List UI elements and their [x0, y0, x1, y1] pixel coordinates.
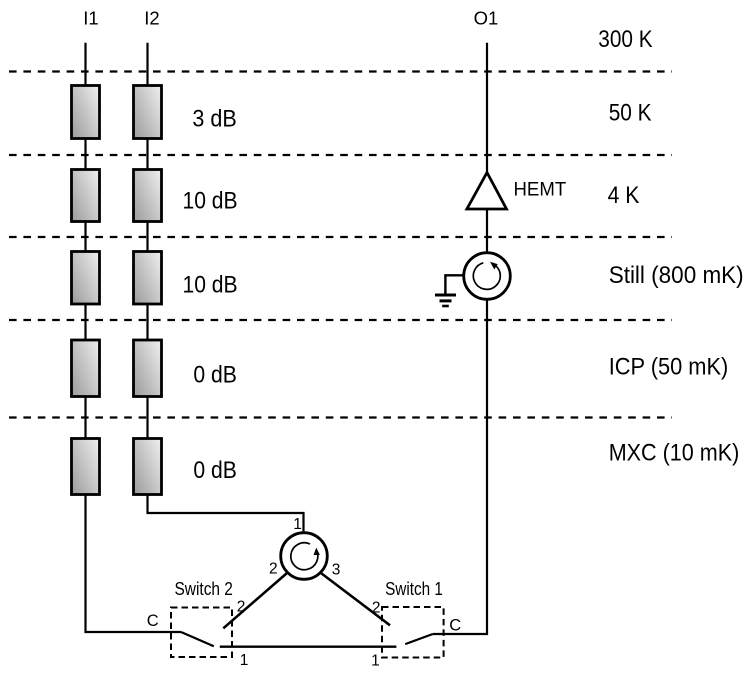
svg-text:1: 1	[240, 652, 249, 669]
attenuator I1 0 dB (ICP)	[72, 340, 100, 397]
svg-text:2: 2	[237, 599, 246, 616]
circulator U2 port label 2	[269, 561, 278, 578]
attenuator value label 10 dB (4 K)	[183, 188, 238, 215]
wire input line I2 down to circulator port 1	[148, 43, 304, 533]
stage boundary 300K/50K dashed line	[9, 70, 672, 72]
Switch 2 port label C	[147, 612, 159, 630]
circulator U2 (MXC stage)	[281, 533, 328, 580]
svg-text:I2: I2	[144, 8, 159, 29]
stage label 4 K	[608, 182, 640, 209]
wire Switch 2 port 1 to Switch 1 port 1	[220, 646, 397, 648]
svg-text:2: 2	[269, 561, 278, 578]
attenuator value label 0 dB (MXC)	[193, 457, 237, 484]
svg-text:1: 1	[371, 653, 380, 670]
svg-text:Switch 2: Switch 2	[175, 578, 233, 599]
Switch 1 port label 1	[371, 653, 380, 670]
attenuator value label 0 dB (ICP)	[193, 361, 237, 388]
ground wire from circulator	[445, 275, 463, 293]
attenuator I2 10 dB (Still)	[134, 252, 162, 305]
attenuator I2 3 dB	[134, 86, 162, 139]
svg-text:2: 2	[372, 600, 381, 617]
svg-text:MXC (10 mK): MXC (10 mK)	[609, 440, 740, 467]
amplifier label HEMT	[514, 180, 567, 201]
svg-text:1: 1	[293, 516, 302, 533]
wire output line O1 down to Switch 1 C	[433, 43, 487, 634]
Switch 1 port label 2	[372, 600, 381, 617]
stage boundary Still/ICP dashed line	[9, 319, 672, 321]
svg-text:C: C	[147, 612, 159, 630]
Switch 1 port label C	[449, 616, 461, 634]
circulator U2 port label 3	[332, 562, 341, 579]
svg-text:10 dB: 10 dB	[183, 272, 238, 299]
port label I1	[83, 8, 98, 29]
svg-text:O1: O1	[474, 8, 499, 29]
port label I2	[144, 8, 159, 29]
ground symbol	[435, 295, 456, 306]
stage boundary 4K/Still dashed line	[9, 236, 672, 238]
svg-text:ICP (50 mK): ICP (50 mK)	[609, 354, 729, 381]
port label O1	[474, 8, 499, 29]
stage boundary 50K/4K dashed line	[9, 154, 672, 156]
wire circulator port 2 to Switch 2 port 2	[223, 573, 286, 628]
stage label 300 K	[598, 26, 652, 53]
Switch 2 port label 2	[237, 599, 246, 616]
Switch 2 port label 1	[240, 652, 249, 669]
amplifier HEMT (triangle)	[467, 173, 507, 210]
svg-text:0 dB: 0 dB	[193, 361, 237, 388]
stage label 50 K	[609, 99, 652, 126]
Switch 1 arm C to 1	[405, 634, 433, 644]
attenuator I2 10 dB (4 K)	[134, 170, 162, 222]
svg-text:0 dB: 0 dB	[193, 457, 237, 484]
svg-text:50 K: 50 K	[609, 99, 652, 126]
svg-text:Still (800 mK): Still (800 mK)	[609, 262, 744, 289]
attenuator I1 0 dB (MXC)	[72, 439, 100, 495]
Switch 2 arm C to 1	[181, 632, 214, 646]
svg-text:I1: I1	[83, 8, 98, 29]
wire circulator port 3 to Switch 1 port 2	[321, 573, 390, 625]
stage boundary ICP/MXC dashed line	[9, 416, 672, 418]
attenuator I1 3 dB	[72, 86, 100, 139]
attenuator I2 0 dB (MXC)	[134, 439, 162, 495]
stage label ICP (50 mK)	[609, 354, 729, 381]
Switch 1 dashed enclosure	[382, 607, 444, 658]
svg-text:HEMT: HEMT	[514, 180, 567, 201]
svg-text:10 dB: 10 dB	[183, 188, 238, 215]
circulator U1 on O1 (Still stage)	[464, 253, 511, 300]
svg-text:300 K: 300 K	[598, 26, 652, 53]
svg-text:C: C	[449, 616, 461, 634]
stage label Still (800 mK)	[609, 262, 744, 289]
svg-text:Switch 1: Switch 1	[385, 578, 443, 599]
stage label MXC (10 mK)	[609, 440, 740, 467]
Switch 2 label	[175, 578, 233, 599]
svg-text:3 dB: 3 dB	[192, 105, 236, 132]
svg-text:3: 3	[332, 562, 341, 579]
wire input line I1 down to Switch 2 C	[86, 43, 182, 632]
attenuator I1 10 dB (4 K)	[72, 170, 100, 222]
Switch 1 label	[385, 578, 443, 599]
svg-text:4 K: 4 K	[608, 182, 640, 209]
Switch 2 dashed enclosure	[171, 608, 232, 658]
attenuator value label 10 dB (Still)	[183, 272, 238, 299]
attenuator value label 3 dB	[192, 105, 236, 132]
attenuator I2 0 dB (ICP)	[134, 340, 162, 397]
attenuator I1 10 dB (Still)	[72, 252, 100, 305]
circulator U2 port label 1	[293, 516, 302, 533]
